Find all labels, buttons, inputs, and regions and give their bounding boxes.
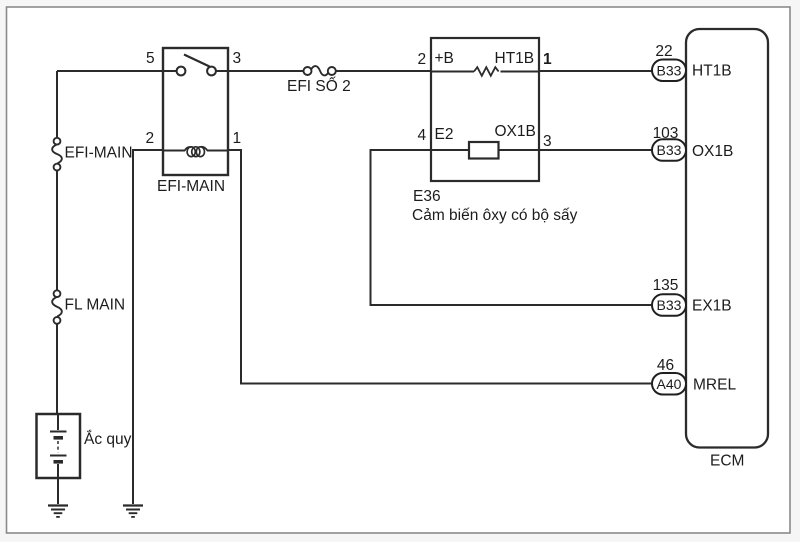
svg-text:A40: A40	[657, 376, 682, 392]
svg-text:2: 2	[418, 51, 427, 68]
svg-text:46: 46	[657, 357, 674, 374]
svg-text:ECM: ECM	[710, 453, 744, 470]
svg-text:+B: +B	[435, 50, 454, 67]
svg-text:B33: B33	[657, 62, 682, 78]
svg-text:1: 1	[543, 51, 552, 68]
svg-text:103: 103	[653, 125, 679, 142]
svg-text:B33: B33	[657, 142, 682, 158]
svg-text:1: 1	[233, 130, 242, 147]
svg-text:HT1B: HT1B	[692, 63, 732, 80]
svg-text:HT1B: HT1B	[495, 50, 535, 67]
svg-text:4: 4	[418, 127, 427, 144]
svg-text:3: 3	[543, 133, 552, 150]
svg-text:E36: E36	[413, 188, 441, 205]
svg-text:OX1B: OX1B	[495, 123, 536, 140]
svg-text:22: 22	[655, 43, 672, 60]
svg-text:MREL: MREL	[693, 377, 736, 394]
svg-text:OX1B: OX1B	[692, 143, 733, 160]
svg-text:135: 135	[653, 277, 679, 294]
svg-text:5: 5	[146, 50, 155, 67]
svg-text:FL MAIN: FL MAIN	[65, 297, 126, 314]
svg-text:EX1B: EX1B	[692, 298, 732, 315]
svg-text:Cảm biến ôxy có bộ sấy: Cảm biến ôxy có bộ sấy	[412, 207, 578, 224]
svg-text:EFI-MAIN: EFI-MAIN	[157, 178, 225, 195]
svg-text:EFI-MAIN: EFI-MAIN	[65, 145, 133, 162]
svg-text:2: 2	[146, 130, 155, 147]
svg-text:B33: B33	[657, 297, 682, 313]
svg-text:E2: E2	[435, 126, 454, 143]
svg-text:Ắc quy: Ắc quy	[84, 430, 132, 448]
svg-text:EFI SỐ 2: EFI SỐ 2	[287, 77, 351, 95]
svg-text:3: 3	[233, 50, 242, 67]
